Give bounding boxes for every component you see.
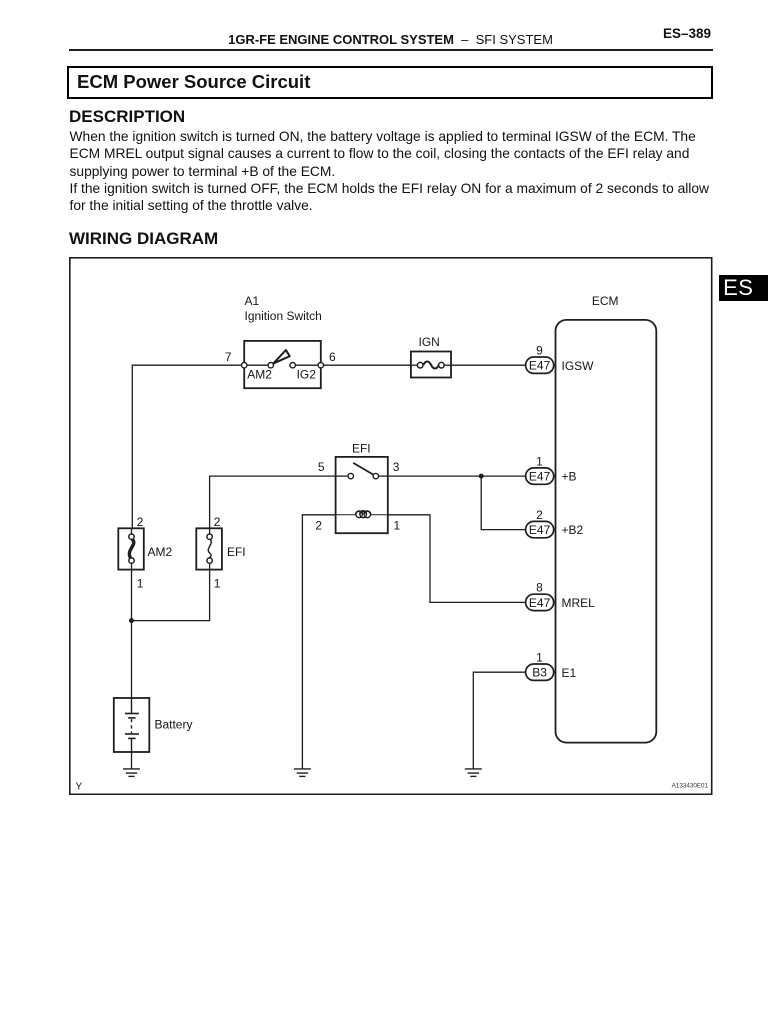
- wire EFI relay pin5 to EFI fuse: [210, 476, 336, 528]
- header rule: [69, 49, 713, 51]
- svg-text:E1: E1: [561, 666, 576, 680]
- contact AM2 circle: [268, 363, 273, 368]
- wire IGN fuse internal: [411, 365, 418, 367]
- AM2 fuse terminal circles: [129, 534, 134, 539]
- switch lever: [273, 350, 289, 364]
- svg-text:+B2: +B2: [561, 524, 583, 538]
- wire EFI relay pin3 to +B connector: [388, 475, 526, 477]
- terminal 7 circle: [242, 363, 247, 368]
- wire battery to ground: [131, 752, 133, 769]
- wire E1 connector to ground: [473, 673, 525, 770]
- svg-text:1: 1: [393, 519, 400, 533]
- svg-text:8: 8: [536, 581, 543, 595]
- connector E47 pin9 IGSW: [526, 357, 554, 373]
- ground at E1: [465, 769, 482, 776]
- terminal 6 circle: [318, 363, 323, 368]
- wire EFI relay coil pin1 to MREL connector: [388, 515, 526, 603]
- svg-text:+B: +B: [561, 470, 576, 484]
- wire AM2 fuse to battery: [131, 570, 133, 698]
- svg-text:2: 2: [214, 515, 221, 529]
- wire ign switch pin7 to AM2 fuse: [132, 366, 244, 529]
- fusible link element: [129, 540, 133, 559]
- AM2 fusible link box: [118, 529, 143, 570]
- svg-text:2: 2: [137, 515, 144, 529]
- page header line text: [69, 33, 712, 46]
- svg-text:3: 3: [393, 461, 400, 475]
- svg-text:EFI: EFI: [227, 545, 246, 559]
- svg-text:1: 1: [214, 577, 221, 591]
- EFI fuse terminal circles: [207, 534, 212, 539]
- svg-text:7: 7: [225, 350, 232, 364]
- wire EFI fuse to junction: [132, 570, 210, 621]
- svg-text:MREL: MREL: [561, 596, 595, 610]
- WIRING DIAGRAM heading: [69, 230, 218, 247]
- svg-text:2: 2: [536, 508, 543, 522]
- connector E47 pin8 MREL: [526, 595, 554, 611]
- body paragraph: [70, 128, 750, 215]
- diagram text labels: [137, 294, 619, 731]
- svg-text:AM2: AM2: [148, 545, 173, 559]
- svg-text:B3: B3: [532, 666, 547, 680]
- relay contact stubs: [336, 475, 348, 477]
- ES side tab: [719, 275, 768, 301]
- fuse element: [208, 540, 211, 559]
- battery internal: [131, 698, 133, 713]
- svg-text:E47: E47: [529, 523, 551, 537]
- wire branch to +B2 connector: [481, 476, 525, 529]
- svg-text:E47: E47: [529, 470, 551, 484]
- svg-text:E47: E47: [529, 359, 551, 373]
- junction node at battery feed: [129, 618, 134, 623]
- diagram frame: [70, 258, 712, 794]
- svg-text:Ignition Switch: Ignition Switch: [245, 309, 322, 323]
- page number ES-389: [412, 27, 711, 41]
- junction node at +B branch: [479, 474, 484, 479]
- svg-text:A1: A1: [245, 294, 260, 308]
- svg-text:1: 1: [536, 651, 543, 665]
- connector E47 pin2 +B2: [526, 522, 554, 538]
- DESCRIPTION heading: [69, 108, 185, 125]
- wire EFI relay coil pin2 to ground: [302, 515, 335, 769]
- svg-text:IGSW: IGSW: [561, 359, 594, 373]
- wire IGN fuse to IGSW connector: [451, 365, 526, 367]
- relay contact circles: [348, 474, 353, 479]
- svg-text:6: 6: [329, 350, 336, 364]
- svg-text:1: 1: [536, 455, 543, 469]
- svg-text:2: 2: [315, 519, 322, 533]
- relay switch blade: [353, 463, 373, 475]
- EFI fuse box: [196, 529, 222, 570]
- svg-text:9: 9: [536, 344, 543, 358]
- svg-text:5: 5: [318, 461, 325, 475]
- battery box: [114, 698, 149, 752]
- svg-text:EFI: EFI: [352, 442, 371, 456]
- EFI relay box: [336, 457, 388, 533]
- AM2 fuse lead stubs: [131, 529, 133, 535]
- contact IG2 circle: [290, 363, 295, 368]
- svg-text:Battery: Battery: [155, 718, 193, 732]
- svg-text:ECM: ECM: [592, 294, 619, 308]
- svg-text:Y: Y: [76, 782, 83, 793]
- EFI fuse lead stubs: [209, 529, 211, 535]
- ground at battery: [123, 769, 140, 776]
- IGN fuse box: [411, 352, 451, 378]
- svg-text:IG2: IG2: [297, 368, 317, 382]
- connector B3 pin1 E1: [526, 664, 554, 680]
- IGN fuse terminal circles: [417, 363, 423, 369]
- fuse element wave: [423, 362, 438, 369]
- ground at EFI relay coil: [294, 769, 311, 776]
- svg-text:1: 1: [137, 577, 144, 591]
- svg-text:IGN: IGN: [419, 335, 440, 349]
- ignition switch A1 box: [242, 341, 324, 388]
- title box: ECM Power Source Circuit: [67, 66, 713, 99]
- relay coil: [336, 514, 356, 516]
- wire ign switch internal left: [244, 365, 268, 367]
- wire ign switch pin6 to IGN fuse: [321, 365, 411, 367]
- svg-text:E47: E47: [529, 596, 551, 610]
- svg-text:A133430E01: A133430E01: [672, 783, 709, 790]
- ECM box: [555, 320, 656, 743]
- connector E47 pin1 +B: [526, 468, 554, 484]
- wiring diagram figure: [69, 257, 713, 795]
- wire ign switch internal right: [295, 365, 320, 367]
- svg-text:AM2: AM2: [247, 368, 272, 382]
